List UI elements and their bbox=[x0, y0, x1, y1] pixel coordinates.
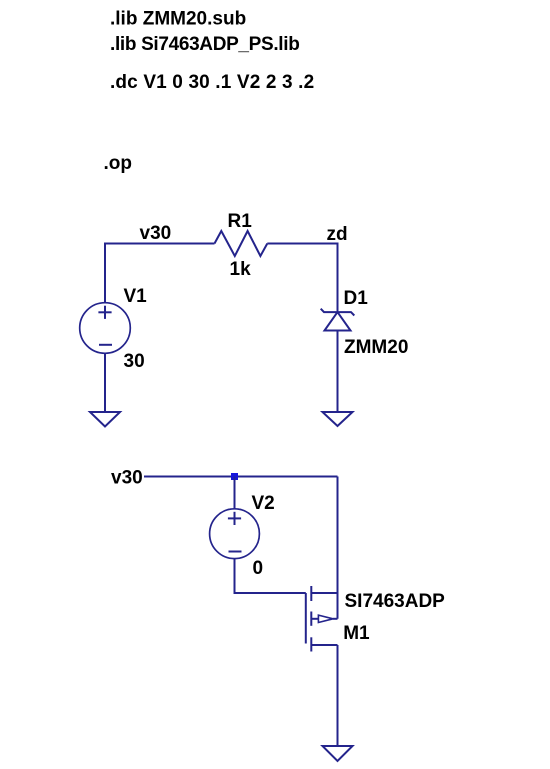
svg-text:zd: zd bbox=[327, 224, 348, 245]
voltage source V1 bbox=[80, 303, 131, 354]
svg-text:.dc V1 0 30 .1 V2 2 3 .2: .dc V1 0 30 .1 V2 2 3 .2 bbox=[110, 72, 314, 93]
wire D1 bottom to ground bbox=[337, 331, 339, 413]
wire v30 horizontal to M1 source branch bbox=[144, 476, 338, 478]
svg-text:30: 30 bbox=[124, 351, 145, 372]
wire v30 node: V1 top to R1 left bbox=[105, 244, 215, 303]
wire M1 drain to ground bbox=[337, 645, 339, 746]
svg-text:M1: M1 bbox=[343, 623, 370, 644]
svg-text:.op: .op bbox=[104, 153, 133, 174]
svg-text:.lib ZMM20.sub: .lib ZMM20.sub bbox=[110, 9, 246, 30]
wire R1 right to zd node corner bbox=[267, 244, 337, 312]
source pin top bbox=[311, 592, 337, 594]
channel segment top bbox=[310, 586, 312, 601]
svg-text:V2: V2 bbox=[252, 493, 275, 514]
ground (D1) bbox=[323, 412, 353, 426]
svg-text:R1: R1 bbox=[228, 211, 253, 232]
ground (M1) bbox=[323, 746, 353, 761]
body pin with arrow bbox=[311, 618, 318, 620]
svg-text:1k: 1k bbox=[230, 259, 252, 280]
drain pin bottom bbox=[311, 644, 337, 646]
wire V1 bottom to ground bbox=[104, 353, 106, 411]
wire junction to V2 top bbox=[234, 477, 236, 510]
wire v30 branch down to M1 source/body bbox=[337, 477, 339, 619]
channel segment bottom bbox=[310, 637, 312, 651]
svg-text:SI7463ADP: SI7463ADP bbox=[345, 591, 446, 612]
zener diode D1 ZMM20 bbox=[321, 309, 355, 331]
ground (V1) bbox=[90, 412, 120, 427]
svg-text:v30: v30 bbox=[111, 468, 143, 489]
junction node square bbox=[231, 473, 238, 480]
svg-text:.lib Si7463ADP_PS.lib: .lib Si7463ADP_PS.lib bbox=[110, 34, 299, 55]
mosfet M1 SI7463ADP (pmos) bbox=[306, 586, 338, 652]
svg-text:0: 0 bbox=[253, 558, 264, 579]
channel segment middle bbox=[310, 612, 312, 626]
svg-text:v30: v30 bbox=[140, 223, 172, 244]
svg-text:ZMM20: ZMM20 bbox=[344, 337, 408, 358]
resistor R1 bbox=[215, 231, 268, 256]
svg-text:V1: V1 bbox=[124, 286, 148, 307]
wire V2 bottom to M1 gate bbox=[235, 559, 306, 593]
svg-text:D1: D1 bbox=[344, 288, 369, 309]
voltage source V2 bbox=[210, 509, 260, 559]
gate bar bbox=[305, 593, 307, 644]
